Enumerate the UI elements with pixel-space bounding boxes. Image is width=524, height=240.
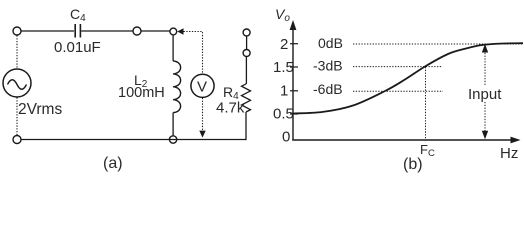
wire (inductor bottom lead) <box>172 113 174 136</box>
svg-text:C4: C4 <box>70 6 86 24</box>
svg-text:1.5: 1.5 <box>273 59 294 76</box>
svg-text:2: 2 <box>280 36 288 53</box>
node T5 (R4 mid terminal) <box>243 50 250 57</box>
tick 2 <box>290 43 298 45</box>
svg-text:(a): (a) <box>103 155 123 172</box>
dotted Fc line <box>425 67 427 139</box>
voltmeter lead arrow (to node A) <box>177 28 183 34</box>
svg-text:100mH: 100mH <box>118 85 165 101</box>
capacitor C4 <box>75 24 80 38</box>
svg-text:4.7k: 4.7k <box>216 100 245 117</box>
y-axis Vo <box>292 28 294 141</box>
wire <box>81 30 133 32</box>
svg-text:Vo: Vo <box>275 6 290 24</box>
node T1 (top-left terminal) <box>13 27 21 35</box>
node B (bottom junction) <box>169 136 176 143</box>
source VS (AC source) <box>3 69 31 97</box>
node A (top junction) <box>170 28 177 35</box>
input span arrow <box>482 44 488 139</box>
node T2 (mid terminal) <box>133 27 141 35</box>
inductor L2 <box>173 61 181 113</box>
x-axis Hz <box>292 139 513 141</box>
tick 1 <box>290 90 298 92</box>
wire <box>141 30 170 32</box>
svg-text:Hz: Hz <box>500 145 518 162</box>
svg-text:0.01uF: 0.01uF <box>54 39 101 56</box>
dotted level line -3dB <box>353 66 442 68</box>
wire <box>21 30 74 32</box>
svg-text:Input: Input <box>468 86 502 103</box>
wire (dotted source lead top) <box>16 35 18 68</box>
tick 1.5 <box>290 66 298 68</box>
svg-text:2Vrms: 2Vrms <box>18 101 62 118</box>
node T3 (bottom-left terminal) <box>13 136 21 144</box>
svg-text:0: 0 <box>282 129 290 146</box>
svg-text:1: 1 <box>280 83 288 100</box>
svg-text:(b): (b) <box>403 156 423 173</box>
meter V (voltmeter) <box>191 74 214 97</box>
wire (dotted source lead bottom) <box>16 97 18 135</box>
wire (bottom rail) <box>21 139 246 141</box>
node T4 (R4 top terminal) <box>243 29 250 36</box>
wire (R4 bottom lead) <box>245 112 247 140</box>
dotted level line 0dB <box>353 43 522 45</box>
voltmeter lead arrow (to bottom wire) <box>199 131 205 138</box>
svg-text:0.5: 0.5 <box>273 106 294 123</box>
wire (inductor top lead) <box>172 35 174 61</box>
wire (dotted voltmeter lead top) <box>184 32 203 74</box>
tick 0.5 <box>290 113 298 115</box>
svg-text:-3dB: -3dB <box>313 58 343 74</box>
dotted level line -6dB <box>353 90 443 92</box>
resistor R4 <box>242 84 251 112</box>
wire <box>246 36 248 49</box>
svg-text:-6dB: -6dB <box>313 81 343 97</box>
wire (R4 upper lead) <box>245 57 247 85</box>
svg-text:0dB: 0dB <box>318 35 343 51</box>
wire (dotted voltmeter lead bottom) <box>202 98 204 130</box>
response curve <box>293 43 523 113</box>
svg-text:V: V <box>197 79 207 96</box>
